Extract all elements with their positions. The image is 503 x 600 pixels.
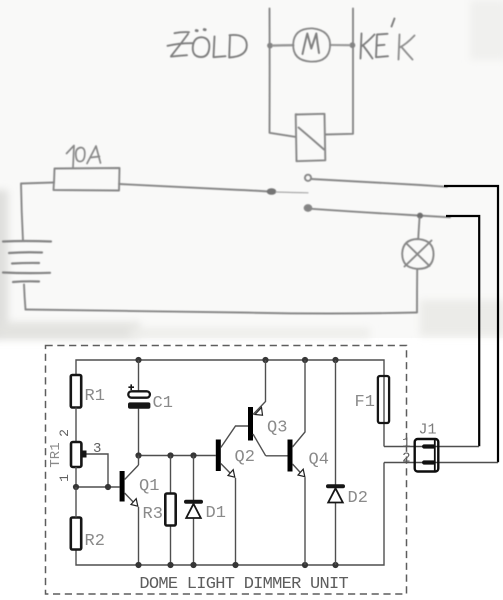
svg-text:Q1: Q1 — [139, 477, 159, 496]
wire fuse to switch contact — [119, 184, 268, 192]
transistor Q3 (PNP) — [248, 360, 287, 456]
node dot top bus / Q4 collector — [302, 357, 308, 363]
svg-text:J1: J1 — [419, 422, 437, 439]
motor M1 — [273, 28, 350, 61]
resistor R1 — [71, 375, 105, 408]
svg-text:TR1: TR1 — [48, 442, 64, 467]
bottom ground bus wire — [76, 463, 384, 566]
node dot bottom bus / Q1 — [135, 562, 141, 568]
wire battery top to fuse — [21, 183, 54, 242]
switch 1 (upper) pivot and arm — [305, 175, 447, 187]
svg-text:2: 2 — [57, 429, 72, 437]
label ZÖLD — [168, 30, 247, 58]
node dot left motor terminal — [267, 43, 273, 49]
wire: upper switch to J1 pin 2 — [444, 186, 498, 462]
lamp — [402, 218, 433, 312]
switch 2 (lower) pivot and arm — [305, 205, 450, 217]
node dot row/C1 — [135, 452, 141, 458]
transistor Q1 — [120, 456, 160, 566]
svg-text:F1: F1 — [355, 393, 375, 412]
motor branch: left vertical wire — [270, 9, 296, 137]
wire node to R2 — [75, 487, 77, 518]
relay box K1 — [296, 114, 326, 161]
svg-text:R3: R3 — [143, 505, 163, 524]
svg-text:1: 1 — [57, 474, 72, 482]
svg-text:Q4: Q4 — [309, 451, 329, 470]
label 10 A — [67, 146, 101, 168]
wire R1 to TR1 — [75, 408, 77, 443]
node dot base / wiper — [105, 484, 111, 490]
node dot top bus / C1 — [135, 357, 141, 363]
svg-text:2: 2 — [402, 451, 410, 467]
svg-text:DOME LIGHT DIMMER UNIT: DOME LIGHT DIMMER UNIT — [139, 575, 348, 594]
wire TR1 to base node — [76, 467, 120, 487]
node dot right motor terminal — [350, 42, 356, 48]
potentiometer TR1 — [48, 429, 108, 487]
transistor Q2 — [216, 426, 255, 565]
node dot row/D1 — [190, 452, 196, 458]
paper background of photographed sketch — [0, 0, 503, 338]
svg-text:R2: R2 — [85, 532, 105, 551]
node dot top bus / Q3 emitter — [262, 357, 268, 363]
svg-text:Q2: Q2 — [235, 448, 255, 467]
node dot bottom bus / R3 — [167, 562, 173, 568]
junction dot to lamp — [417, 213, 423, 219]
node dot row/R3 — [167, 452, 173, 458]
node dot bottom bus / Q2 — [232, 562, 238, 568]
node dot top bus / D2 — [332, 357, 338, 363]
motor branch: right vertical wire — [325, 9, 353, 135]
pencil bottom return wire — [26, 310, 418, 314]
transistor Q4 — [266, 360, 329, 565]
label KÉK — [361, 19, 415, 60]
battery — [3, 241, 51, 282]
capacitor C1 — [128, 360, 173, 456]
dashed enclosure border — [46, 346, 407, 595]
wire collector node row — [139, 455, 216, 457]
node dot bottom bus / Q4 — [302, 562, 308, 568]
fuse F1 — [355, 376, 390, 447]
top supply bus wire — [76, 360, 384, 376]
svg-text:Q3: Q3 — [267, 419, 287, 438]
connector J1 — [384, 422, 498, 472]
diode D2 — [326, 360, 368, 565]
contact blob — [267, 188, 308, 195]
node dot bottom bus / D2 — [332, 562, 338, 568]
resistor R3 — [143, 456, 176, 566]
resistor R2 — [71, 518, 105, 552]
wire: lower switch to J1 pin 1 — [446, 216, 479, 446]
svg-text:3: 3 — [93, 441, 101, 457]
fuse 10A — [54, 168, 120, 191]
svg-text:1: 1 — [402, 436, 410, 452]
svg-text:C1: C1 — [153, 394, 173, 413]
wire battery bottom — [24, 285, 26, 310]
svg-text:R1: R1 — [85, 387, 105, 406]
node dot base / TR1 pin1 — [73, 484, 79, 490]
node dot bottom bus / D1 — [190, 562, 196, 568]
svg-text:D1: D1 — [206, 504, 226, 523]
diode D1 — [184, 456, 226, 566]
svg-text:D2: D2 — [348, 489, 368, 508]
